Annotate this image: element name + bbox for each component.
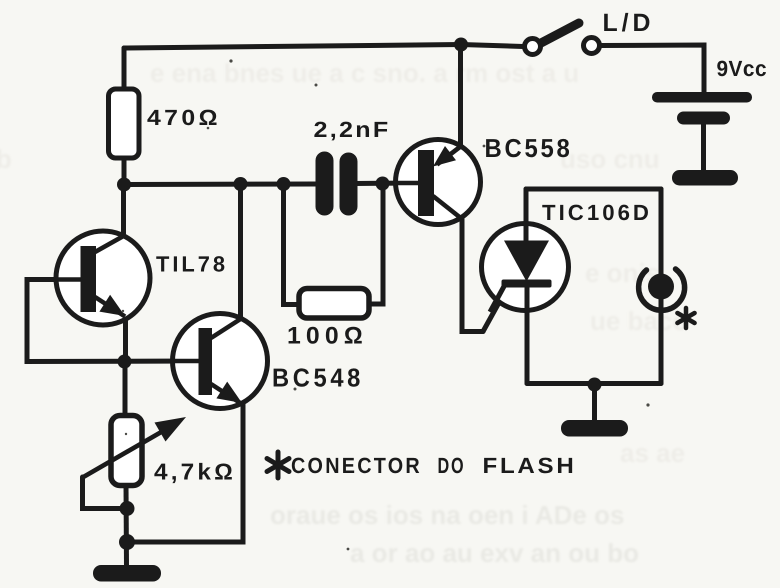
wire top rail	[124, 45, 461, 49]
BC558 base bar	[418, 150, 434, 216]
wire TIL78 emitter down	[123, 316, 128, 363]
switch S1 left contact	[525, 39, 541, 55]
capacitor C1 2,2nF right plate	[340, 153, 358, 216]
svg-text:9Vcc: 9Vcc	[717, 56, 768, 81]
node TIL78 emitter junction	[118, 355, 132, 369]
BC548 base wire inside	[173, 359, 199, 364]
svg-text:BC558: BC558	[485, 133, 573, 163]
wire pot bottom lead	[124, 484, 130, 566]
BC548 base bar	[199, 328, 213, 395]
thyristor TIC106D body	[482, 224, 569, 311]
asterisk small near connector	[677, 308, 694, 328]
svg-text:4,7kΩ: 4,7kΩ	[154, 459, 236, 485]
wire TIL78 base loop	[27, 280, 198, 362]
wire switch to battery corner	[601, 45, 704, 93]
TIL78 emitter arrowhead	[99, 295, 125, 316]
wire battery to ground	[701, 120, 706, 174]
TIC106D cathode bar	[502, 280, 552, 288]
transistor BC548 body	[173, 314, 268, 409]
transistor TIL78 body	[56, 231, 150, 325]
wire pot top lead	[123, 361, 128, 417]
asterisk big legend	[267, 452, 289, 478]
wire gate diagonal	[483, 285, 509, 332]
svg-text:e ena bnes ue a c sno. a rm os: e ena bnes ue a c sno. a rm ost a u	[150, 58, 579, 88]
TIC106D cathode wire inside	[525, 286, 530, 326]
switch S1 right contact	[584, 38, 600, 54]
resistor 100 ohm	[299, 289, 369, 319]
svg-text:470Ω: 470Ω	[147, 105, 221, 130]
svg-text:as ae: as ae	[620, 438, 685, 468]
TIC106D anode wire inside	[524, 224, 529, 245]
node pot wiper junction	[120, 501, 135, 516]
svg-text:BC548: BC548	[272, 363, 364, 393]
wire SCR loop right lower	[659, 297, 664, 384]
ghost bleed-through text rows	[0, 58, 688, 568]
wire SCR loop right upper	[659, 189, 664, 276]
svg-text:2,2nF: 2,2nF	[314, 117, 391, 142]
potentiometer arrow shaft	[83, 431, 164, 478]
wire bus right segment	[355, 181, 419, 187]
svg-text:TIL78: TIL78	[156, 252, 228, 277]
potentiometer arrowhead	[155, 417, 187, 442]
svg-text:oraue os ios na oen i ADe os: oraue os ios na oen i ADe os	[270, 500, 624, 530]
wire pot wiper loop	[83, 477, 127, 509]
transistor BC558 body	[396, 140, 481, 225]
BC558 collector diagonal	[433, 196, 462, 219]
svg-text:uso cnu: uso cnu	[560, 144, 660, 174]
wire bus left segment	[124, 182, 317, 188]
BC548 collector diagonal	[211, 319, 241, 338]
scan specks	[122, 59, 650, 550]
BC558 emitter diagonal	[437, 147, 461, 165]
svg-text:CONECTOR: CONECTOR	[291, 453, 422, 478]
BC548 emitter arrowhead	[216, 382, 242, 403]
resistor 470 ohm	[109, 89, 140, 158]
TIC106D gate wire inside	[490, 285, 505, 313]
TIC106D triangle	[504, 241, 549, 282]
wire cap left to 100ohm	[284, 184, 301, 305]
node emitter ground junction	[119, 534, 135, 550]
wire BC548 collector up	[238, 185, 243, 319]
svg-text:TIC106D: TIC106D	[542, 200, 652, 225]
BC558 emitter arrowhead	[433, 146, 456, 167]
node bus BC548 collector	[234, 177, 248, 191]
switch S1 lever	[541, 23, 579, 43]
wire BC558 collector down to gate	[462, 219, 483, 332]
wire SCR anode top	[524, 189, 529, 243]
wire 470 bottom lead	[122, 157, 127, 186]
TIL78 base wire inside	[57, 277, 81, 282]
TIL78 emitter diagonal	[95, 297, 125, 317]
wire SCR ground drop	[592, 384, 597, 422]
wire SCR loop top	[526, 187, 661, 192]
svg-text:L/D: L/D	[603, 9, 655, 37]
capacitor C1 2,2nF left plate	[316, 152, 334, 216]
svg-text:100Ω: 100Ω	[287, 323, 368, 350]
node bus under 470	[117, 178, 131, 192]
wire BC558 emitter up	[458, 45, 463, 147]
ground battery	[672, 170, 738, 186]
ground SCR	[561, 420, 628, 437]
node bus cap right	[376, 177, 390, 191]
wire node to switch	[461, 45, 523, 47]
svg-text:DO: DO	[438, 453, 466, 478]
wire BC548 emitter loop	[127, 404, 243, 542]
wire cap right to 100ohm	[368, 184, 383, 305]
TIL78 base bar	[81, 246, 97, 312]
wire 470 top lead	[122, 48, 127, 90]
BC558 base wire inside	[396, 181, 419, 186]
BC548 emitter diagonal	[211, 384, 241, 404]
battery plate long	[652, 92, 752, 103]
connector flash dot	[648, 274, 674, 300]
node SCR ground junction	[588, 378, 602, 392]
svg-text:ue baco: ue baco	[590, 306, 688, 336]
ground main	[93, 565, 161, 582]
TIL78 collector diagonal	[95, 236, 124, 252]
connector flash outer arc	[639, 269, 685, 310]
node top rail junction	[454, 38, 468, 52]
node bus cap left	[277, 177, 291, 191]
svg-text:gb: gb	[0, 144, 12, 174]
wire SCR cathode	[525, 286, 530, 384]
wire SCR loop bottom	[527, 381, 661, 386]
wire TIL78 collector	[121, 185, 126, 238]
svg-text:FLASH: FLASH	[483, 453, 577, 478]
svg-text:a or ao au exv an ou bo: a or ao au exv an ou bo	[350, 538, 639, 568]
potentiometer 4,7k body	[111, 416, 142, 486]
battery plate short	[677, 112, 730, 125]
